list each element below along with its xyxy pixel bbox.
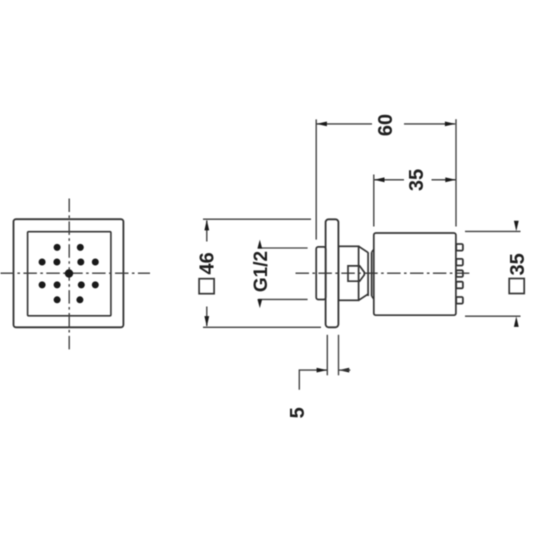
dim square35 square symbol xyxy=(509,279,524,294)
taper top edge xyxy=(359,246,368,252)
dim 60/35 extension line right xyxy=(455,119,457,226)
front view horizontal centerline xyxy=(1,272,151,274)
dim square35 arrow bottom xyxy=(514,316,519,327)
dim 46 arrow up xyxy=(204,220,209,231)
dim 5 arrow pointing right xyxy=(317,368,328,373)
dim square35 arrow top xyxy=(514,221,519,232)
front view outer square (46x46 escutcheon) xyxy=(14,219,124,327)
dim 60 line xyxy=(317,123,372,125)
dim 5 arrow pointing left with tail xyxy=(339,368,350,373)
dim 60 arrow right xyxy=(445,122,456,127)
dim 60 extension line left xyxy=(315,119,317,239)
dim 46 square symbol xyxy=(199,279,214,294)
front view vertical centerline xyxy=(68,199,70,353)
nozzle tooth 5 xyxy=(456,297,463,304)
svg-text:60: 60 xyxy=(375,114,397,136)
G1/2 arrow down xyxy=(257,299,262,308)
dim 35 line xyxy=(374,179,404,181)
ring to head top connector xyxy=(372,249,374,252)
dim 35 arrow right xyxy=(445,177,456,182)
G1/2 leader line bottom xyxy=(258,298,307,300)
dim 46 line xyxy=(206,221,208,242)
ring groove line 1 xyxy=(367,252,369,296)
square spray head xyxy=(374,233,456,315)
svg-text:G1/2: G1/2 xyxy=(251,251,272,292)
ring to head bottom connector xyxy=(372,296,374,299)
nozzle tooth 3 xyxy=(456,270,463,277)
front view inner square (35x35 face) xyxy=(28,232,111,316)
center nozzle dot xyxy=(65,269,73,277)
nozzle tooth 2 xyxy=(456,259,463,266)
svg-text:35: 35 xyxy=(507,253,529,275)
dim 35 arrow left xyxy=(374,177,385,182)
dim 5 extension line left xyxy=(326,335,328,376)
in-wall supply body xyxy=(316,247,326,300)
nozzle tooth 4 xyxy=(456,282,463,289)
nozzle dots ring xyxy=(39,244,99,303)
svg-text:5: 5 xyxy=(287,407,309,418)
escutcheon collar xyxy=(338,246,358,300)
G1/2 arrow up xyxy=(257,240,262,249)
taper bottom edge xyxy=(359,294,368,300)
dim 5 leader polyline xyxy=(299,370,327,390)
G1/2 leader line top xyxy=(258,247,307,249)
svg-text:35: 35 xyxy=(406,169,428,191)
ring groove line 2 xyxy=(371,252,373,296)
nozzle tooth 1 xyxy=(456,244,463,251)
nut (G1/2 swivel) xyxy=(348,266,364,281)
svg-text:46: 46 xyxy=(197,252,219,274)
dim square35 extension line bottom xyxy=(465,315,521,317)
dim square35 extension line top xyxy=(465,230,521,232)
wall flange plate xyxy=(326,219,339,327)
dim 46 arrow down xyxy=(204,316,209,327)
dim 46 extension line bottom xyxy=(203,326,321,328)
dim 35 extension line left xyxy=(373,175,375,227)
dim 46 extension line top xyxy=(203,218,311,220)
dim 5 extension line right xyxy=(338,335,340,376)
side view centerline xyxy=(296,272,472,274)
dim 60 arrow left xyxy=(316,122,327,127)
